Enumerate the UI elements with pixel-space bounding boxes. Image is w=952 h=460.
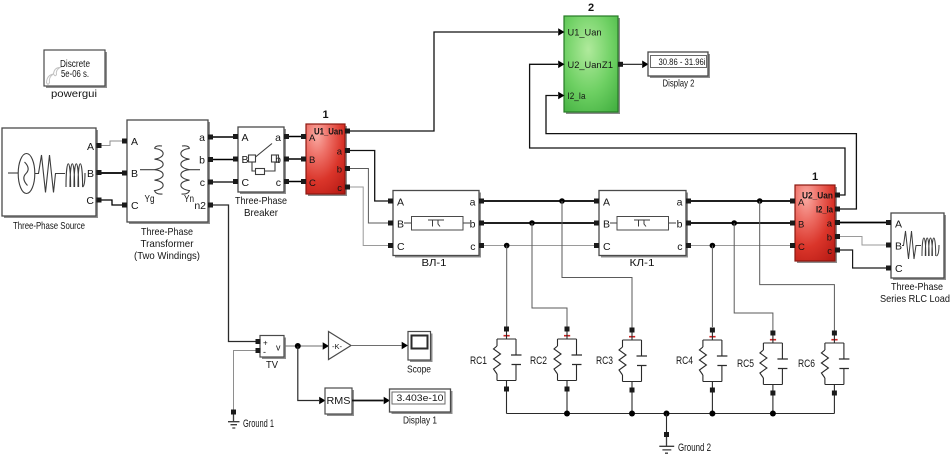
svg-text:1: 1 xyxy=(812,171,818,183)
wire Z1 to display 2 xyxy=(623,63,642,65)
svg-text:B: B xyxy=(397,219,404,231)
wire TV output to gain xyxy=(284,345,323,347)
display 1 xyxy=(390,389,453,414)
RC3 branch xyxy=(619,328,647,393)
gain input arrow xyxy=(323,342,329,350)
svg-text:TV: TV xyxy=(266,359,278,371)
wire RC1 bottom to bus xyxy=(506,392,508,414)
wire U2 b to load B xyxy=(840,237,886,246)
wire VL-1 c to KL-1 C xyxy=(484,245,594,247)
VL-1 input ports xyxy=(388,199,393,204)
wire RMS to display 1 xyxy=(352,400,384,402)
svg-text:(Two Windings): (Two Windings) xyxy=(134,250,200,262)
load input ports xyxy=(886,220,891,225)
wire source B to transformer B xyxy=(102,172,123,174)
ground 1 xyxy=(228,410,240,429)
wire transformer n2 to TV plus xyxy=(213,205,256,342)
KL-1 line block xyxy=(599,191,688,258)
svg-text:Yg: Yg xyxy=(145,194,155,205)
powergui block xyxy=(44,50,107,88)
wire U1_Uan to comparator U1_Uan input xyxy=(350,32,558,131)
VL-1 output ports xyxy=(479,199,484,204)
wire I2_Ia to comparator I2_Ia input xyxy=(546,96,856,210)
svg-text:1: 1 xyxy=(322,109,328,121)
svg-text:A: A xyxy=(87,141,94,153)
svg-text:Yn: Yn xyxy=(184,194,194,205)
svg-text:Z1: Z1 xyxy=(602,60,613,71)
svg-text:RC3: RC3 xyxy=(596,355,613,367)
junction on phase B to RC2 xyxy=(529,220,535,226)
svg-text:A: A xyxy=(397,197,404,209)
wire VL-1 a to KL-1 A xyxy=(484,200,594,202)
svg-text:U1_Uan: U1_Uan xyxy=(314,127,343,137)
svg-text:a: a xyxy=(275,132,281,144)
ground bus xyxy=(507,413,835,415)
svg-text:B: B xyxy=(603,219,610,231)
svg-text:c: c xyxy=(337,183,342,194)
svg-text:I2_Ia: I2_Ia xyxy=(568,91,587,102)
svg-text:a: a xyxy=(199,132,205,144)
display 1 input arrow xyxy=(384,397,390,405)
wire breaker c to U1 block C xyxy=(289,181,301,183)
RC2 branch xyxy=(554,327,582,392)
RC6 branch xyxy=(821,331,849,396)
svg-text:C: C xyxy=(131,200,139,212)
VL-1 line block xyxy=(393,191,481,258)
wire source C to transformer C xyxy=(102,200,123,205)
wire VL-1 b to KL-1 B xyxy=(484,222,594,224)
wire KL-1 a to U2 block A xyxy=(691,200,790,202)
svg-text:Display 2: Display 2 xyxy=(663,78,695,90)
svg-text:ВЛ-1: ВЛ-1 xyxy=(422,257,447,269)
wire KL-1 b to U2 block B xyxy=(691,222,790,224)
junction on phase A to RC3 xyxy=(559,198,565,204)
wire junction down to RMS xyxy=(298,346,319,401)
wire KL-1 c to U2 block C xyxy=(691,245,790,247)
RC5 branch xyxy=(760,331,788,396)
comparator input arrow I2_Ia xyxy=(558,92,564,100)
RC4 branch xyxy=(699,328,727,393)
U1 output port U1_Uan xyxy=(345,129,350,134)
svg-text:Three-Phase: Three-Phase xyxy=(141,226,193,238)
red measurement subsystem U2 (block 1) xyxy=(795,185,837,263)
display 2 input arrow xyxy=(642,61,648,69)
svg-text:-: - xyxy=(263,347,266,357)
bus junction RC4 xyxy=(709,411,715,417)
bus junction RC2 xyxy=(564,411,570,417)
svg-text:c: c xyxy=(827,246,832,257)
svg-text:RC1: RC1 xyxy=(470,355,487,367)
wire U1 b to VL-1 B xyxy=(350,169,388,224)
breaker input ports xyxy=(233,134,238,139)
svg-text:C: C xyxy=(309,178,316,189)
svg-text:U2_Uan: U2_Uan xyxy=(568,60,602,71)
svg-text:Breaker: Breaker xyxy=(244,207,278,219)
svg-text:RC4: RC4 xyxy=(676,355,693,367)
junction on phase C to RC1 xyxy=(504,243,510,249)
U2 input ports A,B,C xyxy=(790,199,795,204)
comparator input arrow U2_Uan xyxy=(558,61,564,69)
source output port C xyxy=(97,198,102,203)
svg-text:b: b xyxy=(337,165,342,176)
svg-text:RMS: RMS xyxy=(327,396,351,407)
transformer input ports A,B,C xyxy=(122,139,127,144)
RC1 branch xyxy=(494,327,522,392)
wire phase A down to RC6 xyxy=(760,201,835,331)
svg-text:B: B xyxy=(798,220,804,231)
svg-text:B: B xyxy=(895,241,902,253)
ground 2 xyxy=(659,432,674,453)
wire source A to transformer A xyxy=(102,141,123,146)
svg-text:c: c xyxy=(470,241,475,253)
source icon: sine in ellipse, resistor, inductor xyxy=(8,154,85,194)
wire phase A down to RC3 xyxy=(562,201,632,328)
svg-text:C: C xyxy=(895,263,903,275)
svg-text:A: A xyxy=(309,133,316,144)
RMS input arrow xyxy=(319,397,325,405)
three-phase transformer block xyxy=(127,120,210,224)
TV voltage measurement block xyxy=(260,336,286,360)
svg-text:Series RLC Load: Series RLC Load xyxy=(880,293,950,305)
svg-text:Three-Phase Source: Three-Phase Source xyxy=(13,220,85,232)
wire RC5 bottom to bus xyxy=(772,396,774,414)
svg-text:A: A xyxy=(131,136,138,148)
svg-text:Three-Phase: Three-Phase xyxy=(235,195,287,207)
three-phase series RLC load block xyxy=(891,213,946,280)
wire phase B down to RC5 xyxy=(734,223,773,331)
scope block xyxy=(408,332,433,363)
bus junction ground 2 xyxy=(664,411,670,417)
bus junction RC5 xyxy=(770,411,776,417)
svg-text:Transformer: Transformer xyxy=(141,238,194,250)
wire phase C down to RC1 xyxy=(506,246,508,328)
svg-text:a: a xyxy=(337,147,343,158)
svg-text:B: B xyxy=(87,168,94,180)
wire phase B down to RC2 xyxy=(532,223,567,327)
comparator output port Z1 xyxy=(618,62,623,67)
wire phase C down to RC4 xyxy=(711,246,713,328)
svg-text:C: C xyxy=(603,241,611,253)
svg-text:C: C xyxy=(86,195,94,207)
svg-text:C: C xyxy=(242,177,250,189)
KL-1 output ports xyxy=(686,199,691,204)
junction on phase A to RC6 xyxy=(757,198,763,204)
breaker output ports xyxy=(284,134,289,139)
wire transformer c to breaker C xyxy=(213,181,238,183)
svg-text:powergui: powergui xyxy=(51,88,97,100)
wire U2_Uan to comparator U2_Uan input xyxy=(530,64,845,195)
svg-text:n2: n2 xyxy=(194,200,206,212)
wire U2 a to load A xyxy=(840,222,886,224)
U2 output ports a,b,c xyxy=(835,220,840,225)
RMS block xyxy=(325,388,354,416)
svg-text:b: b xyxy=(677,219,683,231)
breaker switch icon xyxy=(249,144,279,175)
red measurement subsystem U1 (block 1) xyxy=(306,124,347,196)
comparator input arrow U1_Uan xyxy=(558,28,564,36)
wire U1 a to VL-1 A xyxy=(350,151,388,202)
scope input arrow xyxy=(402,342,408,350)
wire U1 c to VL-1 C xyxy=(350,187,388,246)
svg-text:b: b xyxy=(470,219,476,231)
wire RC6 bottom to bus xyxy=(833,396,835,414)
svg-text:B: B xyxy=(242,154,249,166)
svg-text:-K-: -K- xyxy=(332,342,343,351)
svg-text:Ground 1: Ground 1 xyxy=(243,418,274,430)
load icon: resistor and inductor xyxy=(902,231,939,259)
TV input ports xyxy=(256,339,261,344)
wire gain to scope xyxy=(351,345,402,347)
svg-text:a: a xyxy=(827,219,833,230)
wire RC4 bottom to bus xyxy=(711,393,713,414)
bus junction RC3 xyxy=(629,411,635,417)
transformer winding icon xyxy=(140,146,200,194)
svg-text:A: A xyxy=(603,197,610,209)
wire bus to ground 2 xyxy=(666,414,668,433)
wire TV minus to ground 1 xyxy=(234,351,256,410)
svg-text:C: C xyxy=(397,241,405,253)
svg-text:Scope: Scope xyxy=(407,364,431,376)
svg-text:U1_Uan: U1_Uan xyxy=(568,28,602,39)
source output port B xyxy=(97,170,102,175)
svg-text:B: B xyxy=(309,155,315,166)
svg-text:Display 1: Display 1 xyxy=(403,415,437,427)
wire RC2 bottom to bus xyxy=(566,392,568,414)
comparator subsystem (block 2, green) xyxy=(564,16,620,114)
wire transformer a to breaker A xyxy=(213,136,238,138)
svg-text:c: c xyxy=(200,177,205,189)
svg-text:I2_Ia: I2_Ia xyxy=(816,205,834,215)
svg-text:B: B xyxy=(131,168,138,180)
svg-text:c: c xyxy=(276,177,281,189)
svg-text:a: a xyxy=(470,197,476,209)
display 2 xyxy=(648,52,710,78)
wire transformer b to breaker B xyxy=(213,159,238,161)
svg-text:U2_Uan: U2_Uan xyxy=(802,191,833,201)
junction on phase C to RC4 xyxy=(710,243,716,249)
wire breaker b to U1 block B xyxy=(289,158,301,160)
three-phase source block xyxy=(2,128,98,218)
svg-text:КЛ-1: КЛ-1 xyxy=(630,257,655,269)
svg-text:2: 2 xyxy=(588,2,594,14)
svg-text:C: C xyxy=(798,242,805,253)
junction on phase B to RC5 xyxy=(731,220,737,226)
gain triangle block xyxy=(329,332,352,360)
svg-text:b: b xyxy=(827,233,832,244)
svg-text:Three-Phase: Three-Phase xyxy=(891,281,943,293)
junction TV output xyxy=(295,343,301,349)
wire breaker a to U1 block A xyxy=(289,136,301,138)
svg-text:b: b xyxy=(199,155,205,167)
wire U2 c to load C xyxy=(840,250,886,268)
svg-text:a: a xyxy=(677,197,683,209)
wire RC3 bottom to bus xyxy=(631,393,633,414)
U2 output ports U2_Uan, I2_Ia xyxy=(835,193,840,198)
svg-text:RC5: RC5 xyxy=(737,358,754,370)
svg-text:Ground 2: Ground 2 xyxy=(678,442,711,454)
svg-text:A: A xyxy=(242,132,249,144)
svg-text:5e-06 s.: 5e-06 s. xyxy=(61,69,89,80)
U1 input ports A,B,C xyxy=(301,134,306,139)
svg-text:3.403e-10: 3.403e-10 xyxy=(397,393,444,404)
U1 output ports a,b,c xyxy=(345,148,350,153)
svg-text:v: v xyxy=(276,343,281,353)
transformer output ports a,b,c,n2 xyxy=(208,135,213,140)
svg-text:RC6: RC6 xyxy=(798,358,815,370)
svg-text:A: A xyxy=(798,198,805,209)
svg-text:c: c xyxy=(677,241,682,253)
svg-text:30.86 - 31.96i: 30.86 - 31.96i xyxy=(659,57,706,68)
source output port A xyxy=(97,143,102,148)
svg-text:RC2: RC2 xyxy=(530,355,547,367)
KL-1 input ports xyxy=(594,199,599,204)
svg-text:A: A xyxy=(895,219,902,231)
three-phase breaker block xyxy=(238,127,286,194)
